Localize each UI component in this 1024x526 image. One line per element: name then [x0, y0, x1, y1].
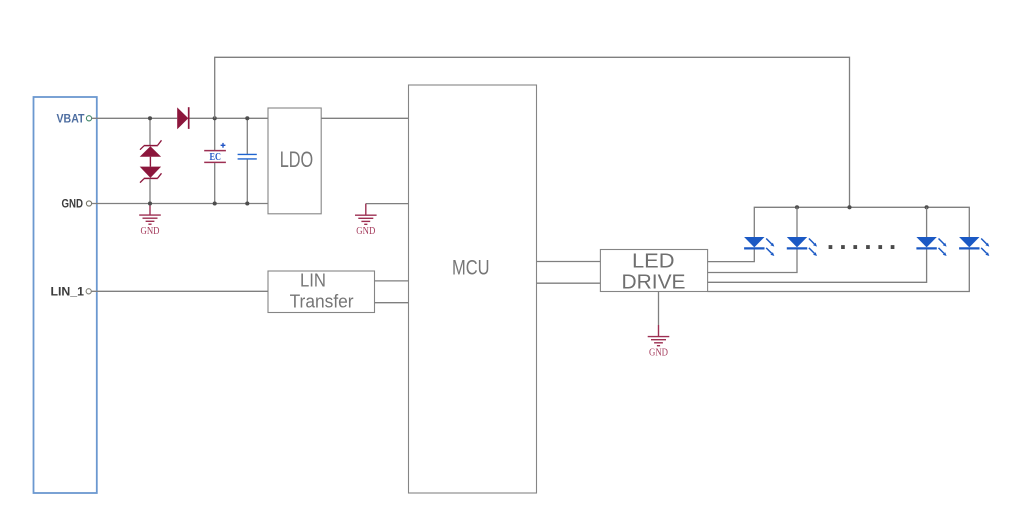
node VBAT-EC	[213, 116, 217, 120]
wire LIN TXD	[375, 280, 409, 282]
wire C1 bottom	[246, 160, 248, 204]
wire LIN RXD	[375, 302, 409, 304]
wire TVS top	[149, 118, 151, 146]
node GND-EC	[213, 201, 217, 205]
svg-text:LIN_1: LIN_1	[51, 287, 85, 299]
svg-text:LIN: LIN	[300, 271, 326, 291]
wire top VBAT loop	[215, 57, 850, 207]
svg-text:Transfer: Transfer	[290, 292, 354, 312]
pin LIN_1	[51, 287, 92, 299]
wire VBAT rail left	[92, 117, 178, 119]
node bus LED2	[795, 205, 799, 209]
ground GND2	[355, 204, 377, 238]
wire LED anode bus	[754, 207, 969, 237]
pin VBAT	[57, 113, 92, 125]
node VBAT-C1	[245, 116, 249, 120]
svg-text:EC: EC	[210, 152, 222, 163]
LED D4	[787, 237, 817, 256]
wire EC bottom	[214, 163, 216, 204]
node VBAT-TVS	[148, 116, 152, 120]
svg-text:MCU: MCU	[452, 257, 490, 280]
wire MCU to LED drive 2	[537, 282, 601, 284]
LED D5	[916, 237, 946, 256]
svg-text:GND: GND	[356, 226, 375, 237]
ground GND1	[139, 204, 161, 238]
LED D6	[959, 237, 989, 256]
node GND-C1	[245, 201, 249, 205]
node bus LED3	[925, 205, 929, 209]
wire LED2 cathode	[708, 250, 797, 273]
wire EC top	[214, 118, 216, 150]
svg-text:VBAT: VBAT	[57, 113, 85, 125]
wire LED3 cathode	[708, 250, 927, 283]
wire MCU to LED drive 1	[537, 261, 601, 263]
wire LED drive gnd stub	[658, 292, 660, 326]
node bus VBAT loop	[847, 205, 851, 209]
MCU U2	[409, 85, 537, 493]
wire VBAT rail right	[190, 117, 269, 119]
node GND-TVS	[148, 201, 152, 205]
wire C1 top	[246, 118, 248, 154]
svg-text:DRIVE: DRIVE	[622, 272, 686, 294]
svg-text:LED: LED	[632, 250, 675, 272]
LED driver U4	[600, 250, 707, 294]
svg-text:GND: GND	[649, 348, 668, 359]
wire LED2 anode	[796, 207, 798, 237]
wire LED4 cathode	[708, 250, 970, 292]
connector J1	[34, 97, 97, 493]
LIN transceiver U3	[268, 271, 375, 313]
diode D1	[177, 107, 189, 129]
TVS diode D2	[140, 140, 162, 182]
capacitor EC1	[204, 143, 226, 163]
pin GND	[62, 199, 92, 211]
wire LDO to MCU	[321, 117, 408, 119]
wire LIN_1	[91, 290, 268, 292]
capacitor C1	[238, 154, 257, 159]
regulator U1 LDO	[268, 108, 321, 214]
svg-text:LDO: LDO	[280, 147, 314, 172]
ellipsis dots	[829, 245, 895, 249]
ground GND3	[648, 325, 670, 359]
wire GND rail	[92, 203, 268, 205]
wire MCU gnd stub	[366, 203, 409, 205]
svg-text:GND: GND	[62, 199, 84, 211]
svg-text:GND: GND	[141, 226, 160, 237]
wire LED3 anode	[926, 207, 928, 237]
LED D3	[744, 237, 774, 256]
wire TVS bottom	[149, 179, 151, 204]
wire LED1 cathode	[708, 250, 755, 262]
